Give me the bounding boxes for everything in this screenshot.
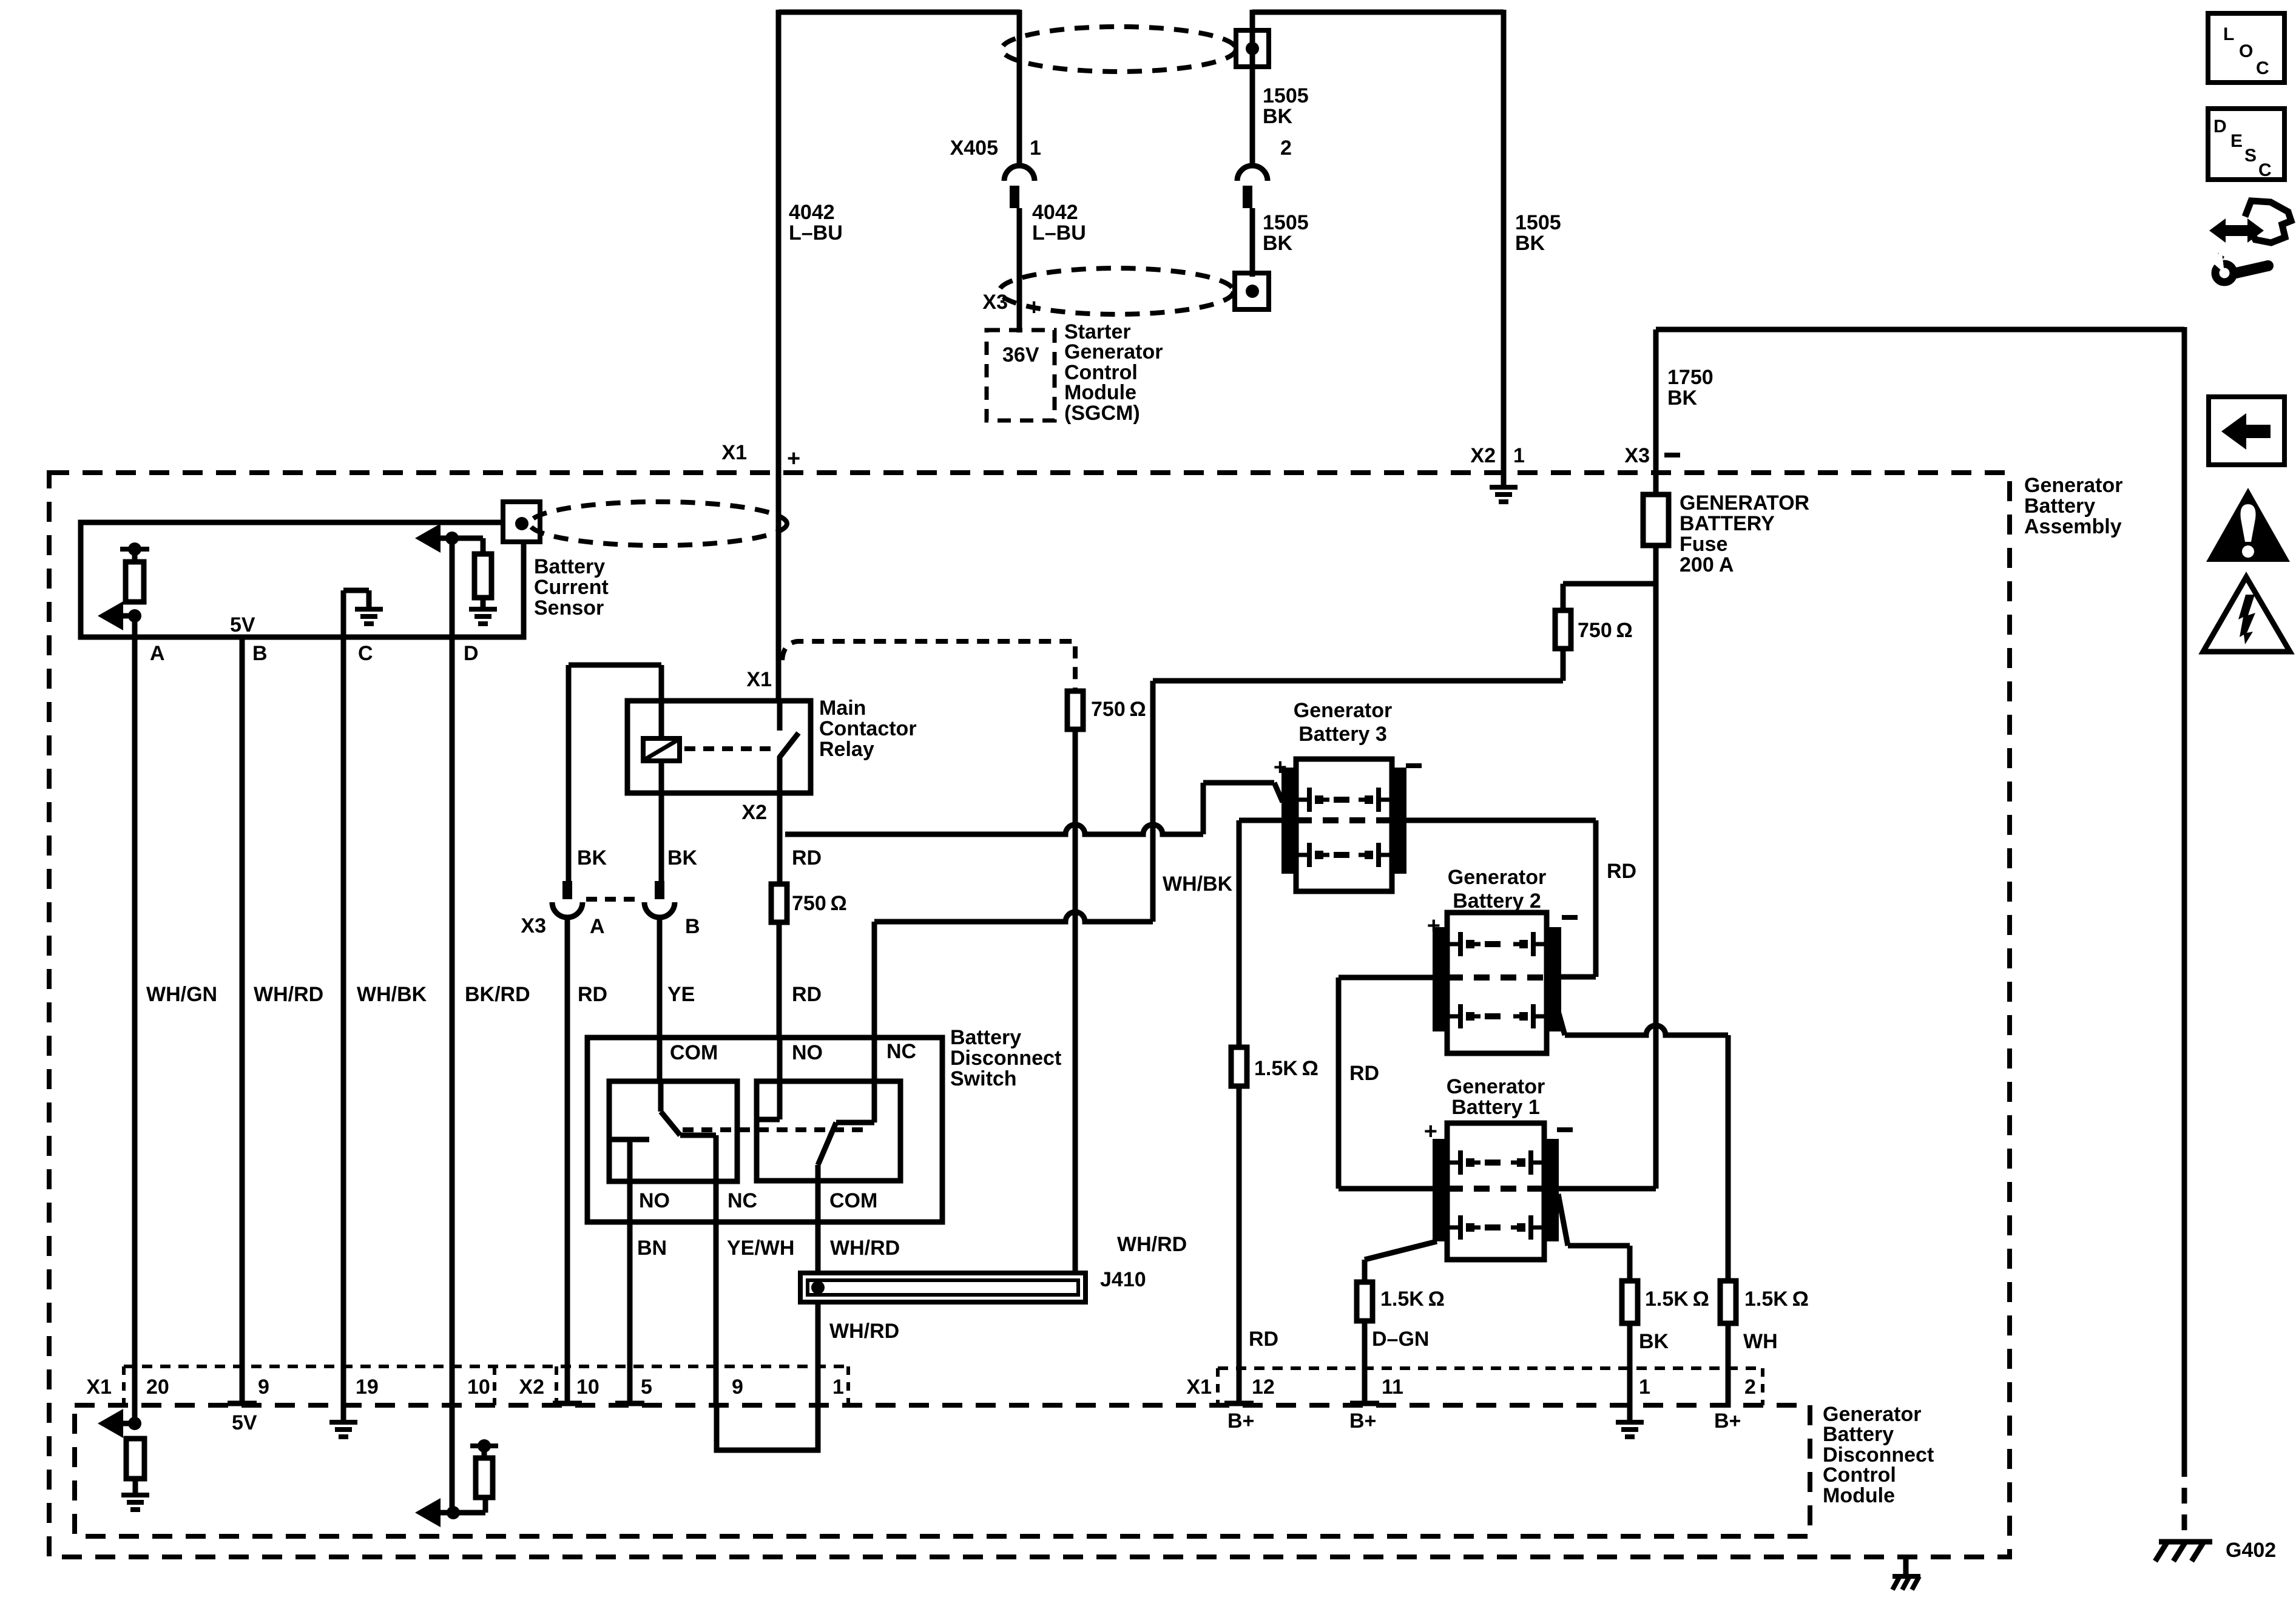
svg-text:X3: X3: [1624, 444, 1650, 467]
svg-text:Generator: Generator: [1447, 1075, 1545, 1098]
svg-text:BN: BN: [637, 1237, 667, 1260]
svg-text:Main: Main: [819, 697, 866, 720]
wire 4042 L-BU main vertical X1 +: [776, 10, 782, 701]
svg-text:X1: X1: [1186, 1376, 1212, 1399]
switch left NO contact: [612, 1137, 649, 1143]
svg-text:1: 1: [1513, 444, 1525, 467]
relay actuator dashed link: [684, 746, 775, 751]
svg-text:9: 9: [732, 1376, 743, 1399]
wire top horizontal right: [1252, 10, 1504, 15]
resistor 750 ohm (fuse branch): [1555, 610, 1571, 649]
module ground on pin 19: [341, 1405, 346, 1422]
svg-text:Relay: Relay: [819, 738, 874, 761]
wire RD from X3-A to pin 10: [565, 916, 570, 1405]
Main Contactor Relay box: [627, 701, 811, 793]
svg-text:WH/RD: WH/RD: [830, 1237, 900, 1260]
svg-text:G402: G402: [2226, 1539, 2276, 1562]
svg-text:A: A: [590, 915, 605, 938]
wire B1 minus to fuse wire: [1558, 1186, 1656, 1192]
resistor 1.5K pin 12: [1231, 1047, 1247, 1086]
wire NC elbow horizontal with hop: [874, 912, 1153, 922]
svg-text:750 Ω: 750 Ω: [1578, 619, 1633, 642]
sensor clamp square: [503, 502, 540, 542]
svg-text:Module: Module: [1064, 381, 1136, 404]
resistor 750 ohm (WH/RD chain): [1067, 691, 1083, 729]
svg-text:RD: RD: [1349, 1062, 1379, 1085]
svg-text:Disconnect: Disconnect: [950, 1047, 1061, 1070]
svg-text:C: C: [358, 642, 373, 665]
svg-text:Battery: Battery: [534, 555, 605, 578]
svg-text:WH/GN: WH/GN: [146, 983, 217, 1006]
wire coil bottom BK: [659, 761, 664, 881]
wire B1 plus to D-GN: [1365, 1241, 1437, 1260]
svg-text:750 Ω: 750 Ω: [792, 892, 847, 915]
switch mechanical dashed link: [683, 1127, 868, 1132]
svg-text:X1: X1: [86, 1376, 112, 1399]
switch left blade COM-NC: [658, 1081, 664, 1112]
resistor 1.5K pin 2: [1720, 1281, 1736, 1323]
wire right edge vertical to G402: [2182, 327, 2187, 1461]
svg-text:B+: B+: [1349, 1409, 1376, 1433]
ground at pin 1: [1627, 1405, 1633, 1422]
icon DESC box: [2208, 109, 2284, 180]
svg-text:1: 1: [1639, 1376, 1650, 1399]
wire WH/RD B: [240, 637, 245, 1405]
svg-text:BK: BK: [1667, 387, 1698, 410]
twisted-loop dashed ellipse 2: [999, 268, 1234, 314]
svg-text:O: O: [2239, 41, 2253, 61]
svg-text:+: +: [1424, 1119, 1437, 1144]
wire 1505 BK lower segment: [1250, 208, 1255, 277]
svg-text:1.5K Ω: 1.5K Ω: [1254, 1057, 1319, 1080]
svg-text:1.5K Ω: 1.5K Ω: [1645, 1288, 1709, 1311]
wire B3 minus to B2 minus: [1406, 818, 1596, 823]
Generator Battery Assembly dashed box: [49, 473, 2010, 1557]
svg-text:X3: X3: [982, 291, 1008, 314]
switch right blade NC-COM: [872, 1038, 877, 1122]
svg-text:200 A: 200 A: [1680, 553, 1734, 576]
splice J410 bus bar: [800, 1273, 1086, 1302]
svg-text:X2: X2: [519, 1376, 544, 1399]
svg-text:4042: 4042: [1032, 201, 1078, 224]
svg-text:WH: WH: [1743, 1330, 1778, 1353]
svg-text:Generator: Generator: [1448, 866, 1547, 889]
wire coil to left: [659, 665, 664, 738]
wire YE from X3-B to switch COM: [657, 916, 663, 1081]
svg-text:Assembly: Assembly: [2024, 515, 2122, 538]
svg-text:GENERATOR: GENERATOR: [1680, 491, 1809, 515]
connector X3 pin A: [562, 881, 572, 899]
wire WH/BK C: [341, 637, 346, 1405]
resistor 1.5K pin 11: [1357, 1282, 1373, 1321]
connector X3 pin B: [655, 881, 664, 899]
Battery Disconnect Switch box: [587, 1038, 942, 1222]
connector X1/X2 dotted strip: [124, 1365, 848, 1368]
svg-text:B+: B+: [1227, 1409, 1254, 1433]
svg-text:RD: RD: [1249, 1328, 1278, 1351]
module arrow + resistor + ground on pin 20: [98, 1409, 123, 1438]
svg-text:Fuse: Fuse: [1680, 533, 1727, 556]
wire B3 lower-left RD: [1239, 818, 1283, 823]
svg-text:COM: COM: [829, 1189, 877, 1212]
wire 1750 BK horizontal top: [1656, 327, 2184, 333]
svg-text:BATTERY: BATTERY: [1680, 512, 1775, 535]
wire WH/BK horizontal upper: [1153, 678, 1563, 684]
svg-text:1505: 1505: [1515, 211, 1561, 234]
sensor dashed loop ellipse: [530, 502, 787, 545]
switch right NO stub: [777, 1038, 783, 1119]
wire B2 plus to B1 plus RD: [1339, 975, 1436, 981]
svg-text:Battery 1: Battery 1: [1451, 1096, 1540, 1119]
twisted-loop dashed ellipse 1: [1002, 27, 1236, 72]
wire 1505 BK right vertical: [1501, 10, 1507, 474]
svg-text:YE/WH: YE/WH: [727, 1237, 794, 1260]
Battery Current Sensor box: [81, 522, 524, 637]
wire WH/RD pin 1: [815, 1302, 821, 1405]
svg-text:L: L: [2223, 24, 2234, 44]
svg-text:1505: 1505: [1263, 211, 1309, 234]
svg-text:(SGCM): (SGCM): [1064, 402, 1140, 425]
svg-text:RD: RD: [792, 983, 822, 1006]
module arrow + resistor on pin 10: [415, 1498, 441, 1527]
svg-text:11: 11: [1382, 1376, 1403, 1399]
GENERATOR BATTERY Fuse 200 A: [1643, 495, 1669, 545]
svg-text:5V: 5V: [230, 613, 255, 636]
svg-text:BK: BK: [1639, 1330, 1669, 1353]
svg-text:9: 9: [258, 1376, 269, 1399]
icon LOC box: [2208, 13, 2284, 83]
svg-text:Contactor: Contactor: [819, 717, 917, 740]
switch left contact sub-box: [609, 1081, 737, 1181]
module internal loop pin9-pin1: [717, 1405, 818, 1450]
svg-text:S: S: [2244, 146, 2257, 166]
svg-text:4042: 4042: [789, 201, 835, 224]
connector X405 pin 1: [1017, 10, 1022, 167]
loop square 1: [1236, 30, 1269, 67]
wire 1505 BK upper: [1250, 10, 1255, 167]
svg-text:B: B: [252, 642, 268, 665]
svg-text:Generator: Generator: [2024, 474, 2123, 497]
svg-text:20: 20: [146, 1376, 169, 1399]
wire WH/RD vertical to J410: [1073, 729, 1078, 1273]
connector module X1 dotted strip: [1218, 1366, 1763, 1370]
svg-text:BK: BK: [577, 846, 607, 869]
wire 1750 BK vertical: [1653, 329, 1659, 495]
svg-text:Switch: Switch: [950, 1067, 1017, 1090]
Starter Generator Control Module (SGCM): [987, 330, 1055, 420]
svg-text:J410: J410: [1100, 1268, 1146, 1291]
svg-text:WH/BK: WH/BK: [1163, 873, 1233, 896]
svg-text:WH/RD: WH/RD: [254, 983, 323, 1006]
svg-text:36V: 36V: [1002, 343, 1039, 366]
svg-text:E: E: [2230, 131, 2243, 151]
svg-text:X2: X2: [741, 801, 767, 824]
svg-text:BK: BK: [1263, 232, 1293, 255]
sensor internal arrow A: [98, 601, 123, 630]
wire 4042 top horizontal: [778, 10, 1020, 15]
svg-text:B: B: [685, 915, 700, 938]
wire YE/WH to pin 9: [714, 1135, 719, 1405]
svg-text:C: C: [2256, 58, 2269, 78]
svg-text:BK: BK: [1515, 232, 1545, 255]
svg-text:Battery 3: Battery 3: [1298, 723, 1387, 746]
dashed link A-B: [586, 897, 641, 902]
svg-text:10: 10: [467, 1376, 490, 1399]
svg-text:WH/BK: WH/BK: [357, 983, 427, 1006]
svg-text:Current: Current: [534, 576, 609, 599]
svg-text:Generator: Generator: [1064, 340, 1163, 363]
svg-text:WH/RD: WH/RD: [829, 1320, 899, 1343]
svg-text:1: 1: [1030, 137, 1041, 160]
svg-text:750 Ω: 750 Ω: [1091, 698, 1146, 721]
svg-text:WH/RD: WH/RD: [1117, 1233, 1187, 1256]
svg-text:YE: YE: [667, 983, 695, 1006]
svg-text:D: D: [2213, 116, 2227, 137]
icon back-arrow box: [2209, 397, 2284, 465]
wire X2 horizontal run with hops: [785, 825, 1203, 834]
connector X405 pin 2: [1237, 166, 1268, 181]
svg-text:NO: NO: [639, 1189, 670, 1212]
svg-text:+: +: [1274, 755, 1287, 780]
svg-text:Battery: Battery: [2024, 495, 2095, 518]
sensor ground C: [341, 590, 346, 637]
svg-text:B+: B+: [1714, 1409, 1741, 1433]
resistor 1.5K pin 1: [1622, 1281, 1638, 1323]
wire B2 minus to WH with hop: [1558, 1009, 1565, 1035]
svg-text:X1: X1: [746, 668, 772, 691]
svg-text:5: 5: [641, 1376, 652, 1399]
switch right contact sub-box: [757, 1081, 900, 1181]
svg-text:L–BU: L–BU: [1032, 221, 1086, 245]
svg-text:Battery: Battery: [1823, 1423, 1894, 1446]
svg-text:10: 10: [576, 1376, 599, 1399]
loop square 2: [1235, 273, 1269, 309]
svg-text:19: 19: [356, 1376, 379, 1399]
svg-text:RD: RD: [578, 983, 607, 1006]
ground at X2 pin 1: [1501, 474, 1507, 487]
svg-text:NC: NC: [728, 1189, 757, 1212]
svg-text:1: 1: [832, 1376, 844, 1399]
svg-text:X2: X2: [1470, 444, 1496, 467]
svg-text:NC: NC: [886, 1040, 916, 1063]
wire 4042 L-BU to SGCM: [1017, 208, 1022, 333]
wire X2 down from relay: [777, 793, 783, 884]
sensor internal arrow D: [415, 524, 441, 553]
icon warning triangle: [2206, 488, 2290, 562]
svg-text:BK: BK: [1263, 105, 1293, 128]
svg-text:1.5K Ω: 1.5K Ω: [1380, 1288, 1445, 1311]
svg-text:BK: BK: [667, 846, 698, 869]
svg-text:X405: X405: [950, 137, 998, 160]
svg-text:Control: Control: [1823, 1463, 1896, 1487]
svg-text:A: A: [150, 642, 165, 665]
svg-text:L–BU: L–BU: [789, 221, 843, 245]
chassis ground on assembly box: [1903, 1557, 1909, 1576]
icon electrical hazard triangle: [2203, 577, 2290, 652]
svg-text:NO: NO: [792, 1041, 823, 1064]
svg-text:1.5K Ω: 1.5K Ω: [1744, 1288, 1809, 1311]
svg-text:X1: X1: [721, 441, 747, 464]
sensor resistor D: [452, 536, 483, 541]
svg-text:+: +: [787, 446, 800, 471]
svg-text:Module: Module: [1823, 1484, 1895, 1507]
svg-text:C: C: [2258, 160, 2272, 180]
wire RD main battery minus vertical: [1653, 545, 1659, 1189]
wire WH/GN A: [132, 616, 138, 1423]
svg-text:RD: RD: [792, 846, 822, 869]
wire to Generator Battery 3 plus: [1201, 783, 1206, 834]
wire B1 minus to BK: [1558, 1194, 1568, 1246]
svg-text:D–GN: D–GN: [1372, 1328, 1429, 1351]
svg-text:2: 2: [1744, 1376, 1756, 1399]
chassis ground G402: [2159, 1539, 2212, 1545]
wire branch to 750 ohm: [1563, 581, 1656, 587]
wire WH/BK vertical: [1150, 681, 1156, 922]
svg-text:Battery 2: Battery 2: [1453, 890, 1541, 913]
svg-text:Generator: Generator: [1294, 699, 1393, 722]
svg-text:12: 12: [1252, 1376, 1275, 1399]
wire BK/RD D: [450, 538, 455, 1514]
relay X1 stub and switch blade: [777, 701, 783, 731]
relay coil: [643, 738, 680, 761]
svg-text:Battery: Battery: [950, 1026, 1021, 1049]
wire dashed to G402: [2182, 1461, 2187, 1538]
dashed option wire from X1: [782, 641, 1075, 691]
svg-text:Sensor: Sensor: [534, 596, 604, 619]
svg-text:1505: 1505: [1263, 84, 1309, 107]
wire WH/RD switch COM down: [815, 1165, 821, 1273]
svg-text:1750: 1750: [1667, 366, 1714, 389]
svg-text:2: 2: [1280, 137, 1292, 160]
svg-text:BK/RD: BK/RD: [465, 983, 530, 1006]
sensor internal resistor A: [120, 547, 149, 552]
svg-text:D: D: [464, 642, 479, 665]
Generator Battery Disconnect Control Module dashed box: [75, 1405, 1810, 1536]
svg-text:RD: RD: [1607, 860, 1636, 883]
svg-text:COM: COM: [670, 1041, 718, 1064]
icon connector-test tool: [2209, 218, 2264, 243]
svg-text:5V: 5V: [232, 1411, 257, 1434]
svg-text:X3: X3: [521, 914, 546, 937]
svg-text:+: +: [1427, 913, 1440, 939]
resistor 750 ohm (battery disconnect NO): [771, 884, 787, 922]
